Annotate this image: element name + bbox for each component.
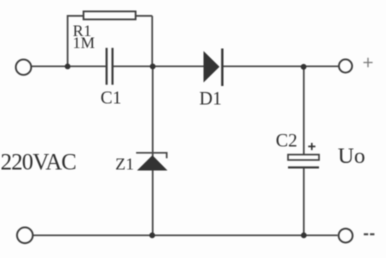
- svg-text:Uo: Uo: [338, 143, 366, 168]
- svg-text:220VAC: 220VAC: [1, 150, 77, 175]
- svg-text:C1: C1: [101, 87, 122, 107]
- svg-text:1M: 1M: [73, 35, 95, 52]
- svg-text:C2: C2: [276, 132, 298, 152]
- svg-text:Z1: Z1: [115, 155, 134, 174]
- svg-text:D1: D1: [199, 90, 222, 110]
